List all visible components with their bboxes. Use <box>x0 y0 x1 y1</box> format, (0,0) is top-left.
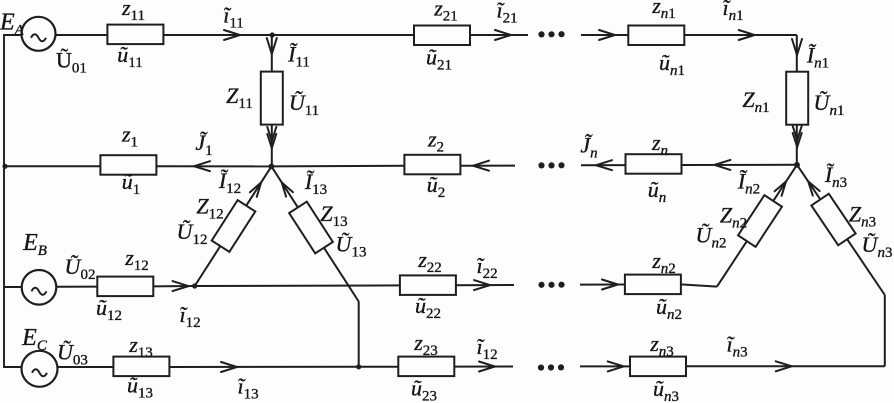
impedance z2 <box>404 155 460 175</box>
ellipsis dots row4 <box>538 364 564 370</box>
wire branch Z11 vertical with arrow I11 <box>267 35 277 166</box>
impedance zn <box>626 154 682 174</box>
label u11 <box>117 42 142 71</box>
impedance z1 <box>100 155 156 175</box>
label z11 <box>121 0 145 24</box>
wire branch Zn2 diagonal <box>717 165 797 287</box>
wire row4: z13 to node with arrow i13 <box>169 362 359 372</box>
label zn3 label <box>649 331 674 360</box>
impedance z12 <box>97 277 153 297</box>
label In3 branch current <box>824 162 847 191</box>
impedance zn1 <box>628 26 684 46</box>
wire row4: z23 to break with arrow <box>454 362 513 372</box>
row3 node junction dot <box>192 283 197 288</box>
wire row3: node to z22 (crosses Z13 diagonal) <box>195 284 401 287</box>
arrow In2 toward right star node <box>775 182 786 196</box>
label U01 source voltage <box>56 48 87 77</box>
wire Zn3 vertical drop to row4 <box>884 295 886 366</box>
wire row3: z22 to break with arrow i22 <box>455 280 514 290</box>
impedance Z13 <box>289 202 333 254</box>
wire row4: E_C to z13 <box>57 366 114 368</box>
label E_C <box>21 325 48 354</box>
label U03 source voltage <box>57 340 88 369</box>
label un1 <box>659 50 685 79</box>
label i11 current <box>223 3 244 32</box>
label Zn1 <box>742 87 769 116</box>
label i12 current <box>179 302 200 331</box>
label U12 branch voltage <box>177 219 208 248</box>
label zn2 label <box>651 248 676 277</box>
wire branch Z12 diagonal <box>195 166 272 286</box>
node A junction dot on row1 <box>270 32 275 37</box>
label Un1 branch voltage <box>814 90 845 119</box>
row4 node junction dot <box>356 364 361 369</box>
wire row2: z2 to break with arrow <box>460 161 515 171</box>
label z2 <box>427 127 444 156</box>
wire row2: zn to right star node with arrow <box>681 160 797 170</box>
label u1 <box>122 169 141 198</box>
wire branch Z13 diagonal <box>271 166 358 301</box>
label z21 <box>433 0 458 25</box>
wire row3: break to zn2 with arrow <box>580 280 625 290</box>
label U13 branch voltage <box>336 232 367 261</box>
wire branch Zn3 diagonal <box>797 165 885 295</box>
label U11 branch voltage <box>289 90 319 119</box>
label Zn3 <box>849 202 876 231</box>
arrow In3 toward right star node <box>808 181 820 195</box>
left star node junction dot <box>269 164 275 170</box>
wire row1: z21 to break, arrow i21 <box>470 30 528 40</box>
ellipsis dots row2 <box>538 162 564 168</box>
wire row2: star node to z2 <box>271 165 405 168</box>
voltage source E_A <box>22 17 56 51</box>
label Z11 <box>226 83 253 112</box>
impedance Zn1 <box>786 72 808 125</box>
label z1 <box>121 122 138 151</box>
label zn <box>651 130 668 159</box>
ellipsis dots row1 <box>538 31 564 37</box>
label u12 <box>96 295 122 324</box>
wire row3: E_B to z12 <box>56 286 99 288</box>
wire row3: zn2 to corner of Zn2 diagonal <box>681 284 717 286</box>
label U02 source voltage <box>65 254 96 283</box>
label u13 <box>127 373 153 402</box>
label J1 source current <box>195 130 212 159</box>
arrow I13 toward star node <box>282 182 293 196</box>
label i22 current <box>476 253 497 282</box>
wire row1: node A to z21 <box>272 34 414 36</box>
label i21 current <box>496 0 517 27</box>
arrow I12 toward star node <box>250 182 261 196</box>
label E_B <box>22 230 47 259</box>
impedance Z11 <box>261 72 283 125</box>
wire row3: z12 to node with arrow i12 <box>152 281 195 291</box>
right star node junction dot <box>794 162 800 168</box>
wire Z13 vertical drop to row4 <box>358 302 360 367</box>
impedance zn3 <box>630 357 686 377</box>
label Un3 branch voltage <box>862 232 893 261</box>
impedance z11 <box>107 25 163 44</box>
wire row1: bus to source E_A <box>3 34 22 36</box>
ellipsis dots row3 <box>538 282 564 288</box>
impedance z13 <box>113 357 169 377</box>
wire top-right corner down with arrow In1 <box>792 35 802 165</box>
wire row2: break to zn with arrow Jn <box>581 160 626 170</box>
label zn1 <box>651 0 676 22</box>
label Z12 <box>196 194 223 223</box>
impedance Zn2 <box>738 195 782 247</box>
label Jn source current <box>580 133 597 162</box>
voltage source E_C <box>22 351 58 387</box>
label un <box>648 177 667 206</box>
label u22 <box>415 293 441 322</box>
label in1 current <box>722 0 743 24</box>
label i12 current (row4) <box>476 334 497 363</box>
wire row1: break to zn1 with arrow <box>581 30 628 40</box>
label z12 <box>124 245 149 274</box>
label E_A <box>0 10 25 39</box>
label un3 <box>653 376 679 403</box>
impedance zn2 <box>625 275 681 295</box>
wire row1: z11 to node A with current arrow i11 <box>163 30 272 40</box>
label In1 branch current <box>806 43 829 72</box>
label z13 <box>128 332 153 361</box>
label Un2 branch voltage <box>696 223 727 252</box>
double arrow below Zn1 <box>793 126 802 147</box>
impedance z21 <box>414 26 470 46</box>
wire row4: zn3 to right corner with arrow in3 <box>685 361 885 371</box>
label Zn2 <box>720 203 747 232</box>
wire row4: bus corner to source E_C <box>3 366 22 368</box>
impedance z22 <box>400 275 456 295</box>
wire row3: bus to source E_B <box>3 286 23 288</box>
label z23 <box>413 330 438 359</box>
label I11 branch current <box>287 42 310 71</box>
label in3 current <box>726 332 747 361</box>
label un2 <box>656 294 682 323</box>
label u23 <box>411 376 437 403</box>
label z22 <box>417 247 442 276</box>
label I13 branch current <box>304 169 327 198</box>
label i13 current <box>237 374 258 403</box>
double arrow below Z11 <box>267 127 276 148</box>
wire row4: node to z23 <box>359 366 399 368</box>
wire row2: bus dot to z1 <box>2 164 101 169</box>
voltage source E_B <box>22 270 57 305</box>
impedance Zn3 <box>811 194 855 246</box>
wire row4: break to zn3 with arrow <box>580 361 631 371</box>
impedance Z12 <box>212 200 256 252</box>
label In2 branch current <box>737 169 760 198</box>
label u2 <box>427 172 446 201</box>
wire row2: z1 to star node with source-current arrow J1 <box>156 161 271 171</box>
label I12 branch current <box>218 168 241 197</box>
wire row1: zn1 to top-right corner, arrow in1 <box>684 30 797 40</box>
label Z13 <box>320 201 347 230</box>
wire row1: E_A to z11 <box>55 34 108 36</box>
wire left vertical bus <box>3 35 5 367</box>
label u21 <box>426 45 452 74</box>
impedance z23 <box>398 357 454 377</box>
